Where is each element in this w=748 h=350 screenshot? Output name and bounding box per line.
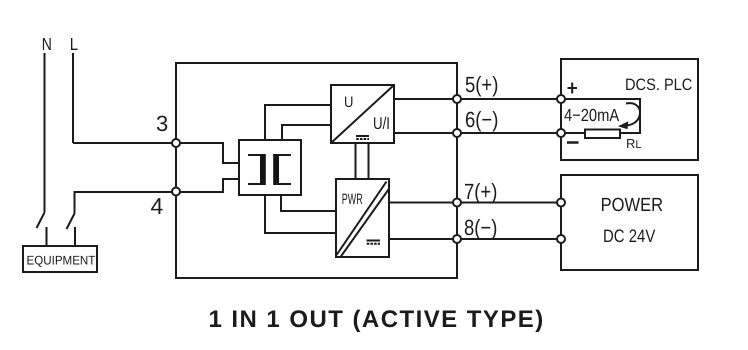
wire output terminal 5 xyxy=(394,98,561,100)
svg-text:4: 4 xyxy=(151,193,164,219)
wire DCS load loop xyxy=(565,99,640,133)
wire transformer to U/I upper xyxy=(265,105,331,140)
svg-text:L: L xyxy=(70,34,79,54)
switch S2 lower contact xyxy=(74,227,76,246)
DCS PLC box xyxy=(561,59,698,160)
wire power terminal 8 xyxy=(389,238,561,240)
svg-text:1 IN 1 OUT (ACTIVE TYPE): 1 IN 1 OUT (ACTIVE TYPE) xyxy=(209,306,545,333)
svg-text:N: N xyxy=(42,34,52,54)
label minus xyxy=(567,141,579,144)
wire output terminal 6 xyxy=(394,132,561,134)
current direction arrow xyxy=(618,103,640,129)
terminal 3 node xyxy=(172,139,180,147)
terminal 7 node xyxy=(453,199,461,207)
transformer T1 core symbol xyxy=(248,154,291,185)
svg-text:7(+): 7(+) xyxy=(464,179,497,204)
POWER minus node xyxy=(557,235,565,243)
wire U/I to PWR right xyxy=(368,143,370,179)
POWER supply box xyxy=(561,175,698,270)
terminal 5 node xyxy=(453,95,461,103)
label plus xyxy=(568,83,578,94)
wire transformer to PWR upper xyxy=(281,195,336,211)
isolator module outline xyxy=(176,63,457,278)
terminal 4 node xyxy=(172,188,180,196)
wire L line xyxy=(72,53,74,143)
switch S1 lower contact xyxy=(46,227,48,246)
power module PWR box xyxy=(336,179,389,257)
svg-text:U: U xyxy=(344,94,353,111)
svg-text:3: 3 xyxy=(156,111,168,136)
svg-text:DCS. PLC: DCS. PLC xyxy=(625,76,692,94)
svg-text:4−20mA: 4−20mA xyxy=(564,105,619,125)
svg-text:6(−): 6(−) xyxy=(465,107,498,132)
svg-text:EQUIPMENT: EQUIPMENT xyxy=(27,254,96,268)
converter U1 DC symbol xyxy=(356,136,369,139)
wire transformer to PWR lower xyxy=(265,195,336,233)
resistor RL xyxy=(585,130,620,139)
DCS minus node xyxy=(557,129,565,137)
wire input terminal 4 xyxy=(75,179,240,214)
svg-text:DC 24V: DC 24V xyxy=(603,226,655,246)
svg-text:8(−): 8(−) xyxy=(464,215,497,240)
wire N line xyxy=(44,53,46,213)
transformer T1 box xyxy=(239,140,301,195)
switch S1 blade xyxy=(37,213,45,229)
svg-text:U/I: U/I xyxy=(373,114,390,133)
wire transformer to U/I lower xyxy=(282,125,331,140)
wire power terminal 7 xyxy=(389,202,561,204)
svg-text:POWER: POWER xyxy=(601,195,663,216)
svg-text:RL: RL xyxy=(626,136,642,151)
terminal 6 node xyxy=(453,129,461,137)
equipment box xyxy=(23,246,97,272)
svg-text:PWR: PWR xyxy=(342,191,363,208)
svg-text:5(+): 5(+) xyxy=(465,72,498,97)
converter U1 U/I box xyxy=(331,85,394,143)
switch S2 blade xyxy=(67,214,75,230)
power module PWR DC symbol xyxy=(367,241,381,244)
wire input terminal 3 xyxy=(73,143,239,163)
terminal 8 node xyxy=(453,235,461,243)
DCS plus node xyxy=(557,95,565,103)
wire DCS minus to RL xyxy=(565,132,585,134)
POWER plus node xyxy=(557,199,565,207)
wire U/I to PWR left xyxy=(355,143,357,179)
